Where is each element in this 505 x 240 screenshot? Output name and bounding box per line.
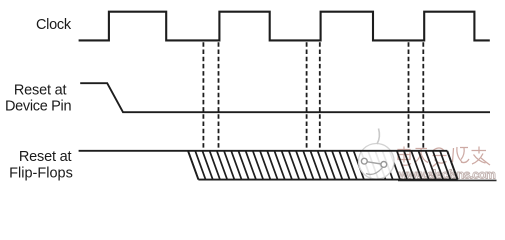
svg-text:Device Pin: Device Pin [5, 99, 72, 115]
svg-text:Flip-Flops: Flip-Flops [9, 166, 73, 182]
svg-text:Reset at: Reset at [19, 149, 72, 165]
svg-text:Clock: Clock [36, 17, 72, 33]
svg-text:Reset at: Reset at [14, 83, 67, 99]
